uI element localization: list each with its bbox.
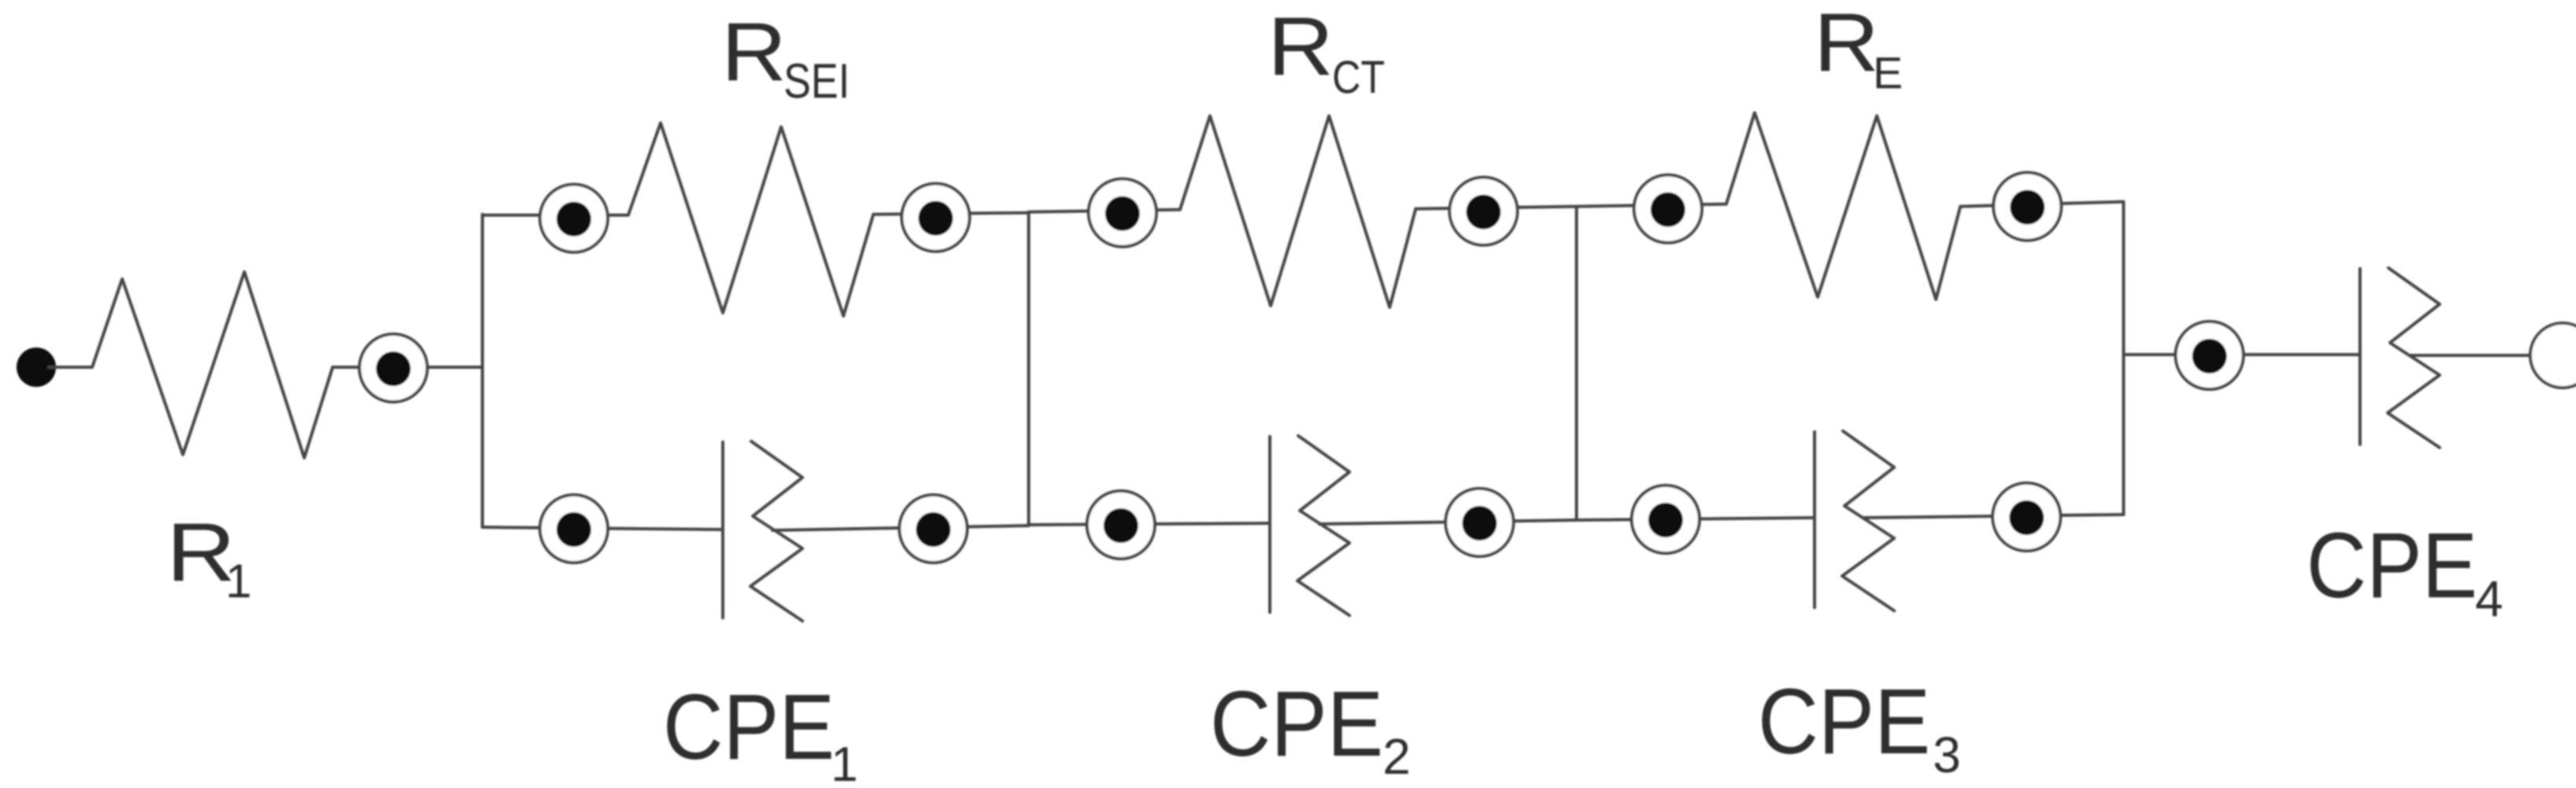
- label CPE2: [1210, 672, 1411, 785]
- connection nodes (circle with dot): [359, 173, 2243, 563]
- wire: [1029, 210, 1180, 212]
- wire: [873, 213, 1029, 214]
- resistor RE: [1726, 113, 1960, 299]
- wire: [2410, 354, 2530, 357]
- wire: [1576, 518, 1815, 520]
- svg-text:2: 2: [1383, 728, 1411, 785]
- svg-text:CPE: CPE: [2306, 514, 2477, 618]
- node B1 bottom-right: [899, 495, 967, 563]
- wire: [2124, 353, 2360, 356]
- node B1 top-left: [540, 184, 608, 252]
- wire: [772, 526, 1029, 530]
- svg-text:SEI: SEI: [784, 54, 850, 109]
- wire: [1576, 204, 1726, 206]
- resistor RSEI: [628, 123, 873, 316]
- svg-text:1: 1: [225, 555, 251, 608]
- wire: [1320, 520, 1576, 524]
- label RCT: [1268, 1, 1385, 103]
- node B2 bottom-left: [1087, 491, 1155, 559]
- resistor R1: [92, 272, 333, 458]
- node B2 top-right: [1450, 177, 1517, 245]
- svg-text:E: E: [1873, 48, 1903, 98]
- node B2 bottom-right: [1446, 489, 1513, 556]
- node B3 bottom-right: [1993, 483, 2060, 551]
- terminal T1 (input): [17, 348, 56, 387]
- terminal T2 (output): [2530, 323, 2576, 388]
- svg-text:CPE: CPE: [1758, 670, 1930, 774]
- svg-text:R: R: [1814, 0, 1879, 89]
- wire: [482, 527, 723, 530]
- wire: [49, 366, 92, 369]
- svg-text:CPE: CPE: [663, 675, 835, 779]
- wire: [1960, 202, 2124, 206]
- wire: [1416, 206, 1576, 209]
- svg-text:CPE: CPE: [1210, 672, 1383, 776]
- svg-text:3: 3: [1933, 727, 1961, 783]
- capacitor CPE3: [1815, 431, 1894, 611]
- resistor RCT: [1180, 116, 1416, 307]
- capacitor CPE2: [1270, 436, 1349, 615]
- node B1 top-right: [902, 184, 970, 251]
- node N1: [359, 334, 427, 402]
- node B1 bottom-left: [540, 495, 608, 563]
- junction bar (node C): [1575, 206, 1578, 520]
- wire: [1864, 515, 2124, 518]
- label RE: [1814, 0, 1903, 98]
- label RSEI: [721, 6, 850, 109]
- capacitor CPE1: [723, 441, 802, 621]
- label CPE1: [663, 675, 858, 788]
- wire: [482, 214, 628, 217]
- node OUT: [2176, 322, 2243, 389]
- svg-text:R: R: [1268, 1, 1334, 93]
- label CPE3: [1758, 670, 1961, 783]
- junction bar (node B): [1027, 213, 1030, 525]
- junction bar (node A): [481, 214, 484, 527]
- node B2 top-left: [1089, 179, 1156, 247]
- wire: [1029, 523, 1270, 525]
- wire: [333, 366, 482, 369]
- label R1: [166, 507, 251, 608]
- node B3 top-right: [1993, 173, 2061, 240]
- svg-text:1: 1: [831, 738, 858, 788]
- node B3 bottom-left: [1632, 485, 1699, 553]
- svg-text:CT: CT: [1332, 52, 1385, 103]
- node B3 top-left: [1634, 175, 1702, 243]
- label CPE4: [2306, 514, 2503, 627]
- svg-text:4: 4: [2475, 571, 2503, 627]
- svg-text:R: R: [721, 6, 787, 98]
- capacitor CPE4: [2360, 268, 2440, 448]
- junction bar (node D): [2122, 202, 2125, 515]
